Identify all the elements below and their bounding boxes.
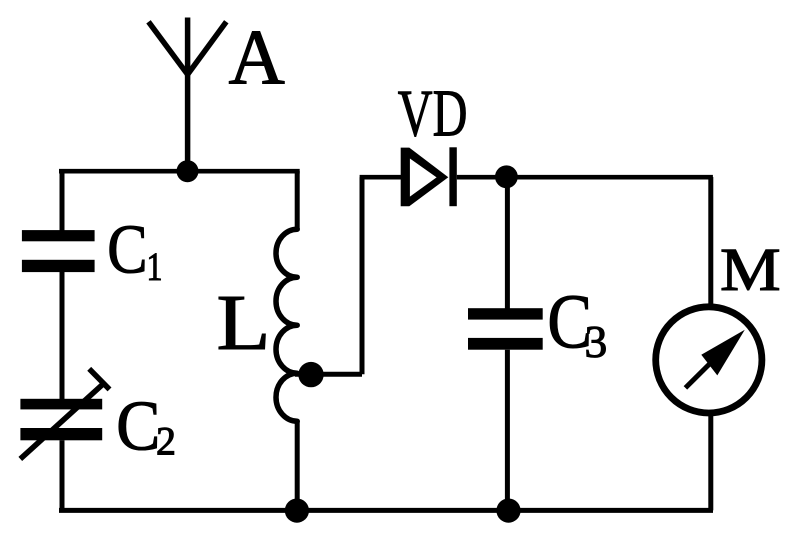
junction dot diode/C3 — [495, 165, 518, 188]
svg-text:C: C — [116, 386, 160, 465]
svg-text:2: 2 — [156, 418, 176, 463]
capacitor C2 top plate — [20, 399, 102, 410]
svg-text:M: M — [720, 236, 781, 304]
wire left vertical middle (C1 to C2) — [60, 272, 65, 399]
meter M needle shaft — [685, 362, 711, 388]
svg-text:L: L — [217, 279, 271, 367]
svg-text:VD: VD — [398, 76, 468, 151]
antenna A left arm — [149, 22, 188, 75]
svg-text:3: 3 — [585, 316, 608, 367]
wire bottom horizontal — [59, 508, 713, 513]
wire C3 bottom stub — [505, 350, 510, 511]
junction dot bottom-right (C3 branch) — [496, 499, 520, 523]
wire top-right horizontal — [506, 175, 713, 180]
capacitor C2 variable arrow diagonal — [20, 384, 103, 459]
capacitor C3 bottom plate — [468, 338, 543, 350]
inductor L coil loops — [276, 229, 297, 421]
antenna A mast — [185, 18, 191, 172]
diode VD cathode bar — [449, 147, 456, 206]
wire diode anode — [360, 175, 402, 180]
meter M needle arrowhead — [701, 330, 745, 376]
node A junction dot — [177, 160, 199, 182]
wire diode cathode to junction — [457, 175, 508, 180]
wire top-left horizontal — [59, 169, 300, 174]
wire coil bottom stub — [295, 421, 300, 510]
svg-text:A: A — [229, 14, 285, 101]
diode VD triangle — [401, 148, 449, 207]
wire left vertical lower (C2 to bottom) — [60, 440, 65, 510]
wire tap vertical up to diode — [360, 177, 365, 374]
capacitor C3 top plate — [468, 308, 543, 319]
tap junction dot — [298, 362, 323, 387]
wire coil top stub — [295, 171, 300, 229]
wire C3 top stub — [505, 177, 510, 309]
capacitor C2 bottom plate — [20, 428, 102, 440]
meter M circle — [656, 307, 762, 413]
wire meter bottom stub — [708, 416, 713, 510]
capacitor C1 top plate — [22, 230, 95, 241]
antenna A right arm — [188, 22, 227, 75]
capacitor C2 variable arrow tick — [89, 369, 109, 390]
wire left vertical upper (node to C1) — [60, 171, 65, 231]
svg-text:C: C — [107, 211, 147, 288]
junction dot bottom-left (coil branch) — [285, 499, 309, 523]
svg-text:1: 1 — [147, 245, 163, 289]
diode VD triangle white interior — [410, 159, 437, 197]
capacitor C1 bottom plate — [22, 260, 95, 272]
wire meter top stub — [708, 177, 713, 304]
wire tap horizontal — [295, 372, 362, 377]
